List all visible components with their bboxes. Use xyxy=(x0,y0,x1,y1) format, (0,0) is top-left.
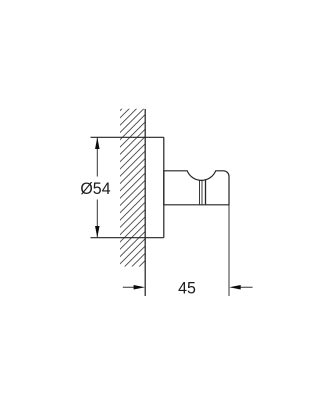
arrow up xyxy=(95,138,100,150)
svg-text:45: 45 xyxy=(178,279,196,298)
node hook body xyxy=(164,171,229,205)
wire wall surface line xyxy=(144,109,146,296)
wall hatching xyxy=(86,60,156,342)
wire dimension line Ø54 (upper segment) xyxy=(96,137,98,176)
arrow left (at extension) xyxy=(229,285,240,290)
arrow right (at wall) xyxy=(134,285,145,290)
arrow down xyxy=(95,226,100,238)
wire dimension line Ø54 (lower segment) xyxy=(96,200,98,238)
svg-text:Ø54: Ø54 xyxy=(80,179,110,198)
node hook collar groove xyxy=(200,180,206,205)
wire 45 dim right tail xyxy=(234,286,253,288)
node flange plate (Ø54) xyxy=(91,137,164,237)
wire 45 dim left tail xyxy=(123,286,140,288)
wire extension line right (45 dim) xyxy=(228,205,230,296)
